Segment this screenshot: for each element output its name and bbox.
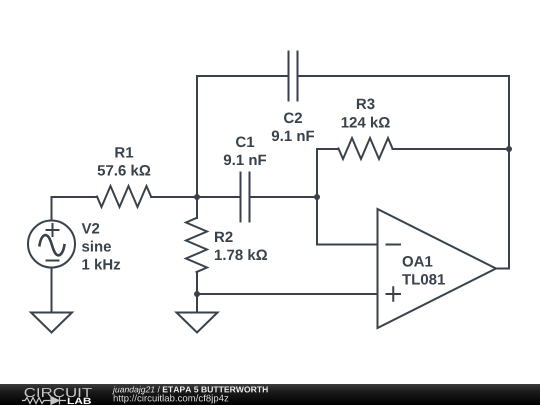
output node junction dot xyxy=(506,146,512,152)
node B junction dot xyxy=(314,194,320,200)
wire C1 to node B xyxy=(250,196,318,198)
wire V2 bottom to ground xyxy=(51,268,53,313)
wire node C down to ground xyxy=(196,294,198,313)
wire R2 bottom to node C xyxy=(196,272,198,294)
node A junction dot xyxy=(194,194,200,200)
wire node A to C1 xyxy=(197,196,241,198)
wire node C to op-amp non-inverting input xyxy=(197,293,378,295)
label C1 xyxy=(224,137,266,166)
wire node B down to op-amp inverting input xyxy=(317,197,378,245)
resistor R3 xyxy=(339,138,393,159)
CircuitLab logo resistor squiggle and diode xyxy=(22,397,66,405)
footer attribution line 1 xyxy=(112,386,268,394)
label V2 xyxy=(82,223,121,270)
CircuitLab logo wordmark xyxy=(25,388,92,397)
source V2 xyxy=(28,221,75,268)
wire V2 top to R1 xyxy=(52,197,98,221)
label R1 xyxy=(98,147,151,175)
wire R1 to node A xyxy=(151,196,197,198)
op-amp OA1 xyxy=(378,209,497,328)
node C junction dot xyxy=(194,291,200,297)
ground under R2 xyxy=(177,313,218,333)
wire node B up to R3 xyxy=(317,149,339,197)
resistor R1 xyxy=(97,186,151,207)
label R2 xyxy=(215,232,267,261)
wire top loop from node A to C2 left plate xyxy=(197,76,289,197)
wire from C2 right plate to right rail xyxy=(298,75,510,77)
wire right rail down to output xyxy=(496,76,509,269)
label R3 xyxy=(342,99,390,128)
wire R2 top xyxy=(196,197,198,218)
capacitor C2 xyxy=(289,52,298,101)
label C2 xyxy=(272,113,314,142)
resistor R2 xyxy=(186,218,207,272)
label OA1 xyxy=(402,256,445,285)
footer bar xyxy=(0,384,540,405)
wire R3 to right rail xyxy=(393,148,510,150)
CircuitLab logo LAB text xyxy=(68,398,91,404)
capacitor C1 xyxy=(241,173,250,222)
footer url line 2 xyxy=(114,394,229,403)
ground under V2 xyxy=(31,313,72,333)
